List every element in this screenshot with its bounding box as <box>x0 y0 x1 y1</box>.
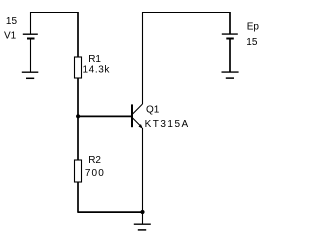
wire V1 bottom lead <box>30 39 32 73</box>
battery V1 positive plate <box>23 33 38 35</box>
wire Ep top lead <box>229 12 231 34</box>
ground center long bar <box>134 223 151 225</box>
svg-text:700: 700 <box>85 168 105 179</box>
svg-text:15: 15 <box>246 37 258 48</box>
transistor Q1 collector diagonal <box>133 104 143 114</box>
resistor R2 body <box>75 160 82 182</box>
svg-text:R2: R2 <box>88 155 101 166</box>
wire R1 top lead <box>77 12 79 57</box>
ground center short bar <box>138 229 146 231</box>
wire bottom from R2 to emitter node <box>78 211 143 213</box>
battery V1 negative plate <box>27 38 35 40</box>
wire base from node to Q1 <box>78 115 131 117</box>
wire base node to R2 <box>77 116 79 160</box>
battery Ep negative plate <box>226 38 234 40</box>
wire Q1 emitter down to ground node <box>142 128 144 212</box>
wire top-right from collector to Ep <box>143 12 231 14</box>
svg-text:KT315A: KT315A <box>145 119 190 130</box>
wire ground lead <box>142 212 144 224</box>
wire R2 bottom lead <box>77 182 79 213</box>
resistor R1 body <box>75 57 82 78</box>
svg-text:15: 15 <box>6 16 18 27</box>
transistor Q1 emitter arrowhead <box>139 124 143 129</box>
node emitter-ground junction dot <box>140 210 144 214</box>
transistor Q1 emitter diagonal <box>133 118 142 128</box>
ground under Ep short bar <box>226 77 234 79</box>
ground under Ep long bar <box>222 71 239 73</box>
wire Ep bottom lead <box>229 39 231 73</box>
svg-text:Ep: Ep <box>247 22 260 33</box>
wire R1 bottom to base node <box>77 78 79 117</box>
svg-text:Q1: Q1 <box>146 104 160 115</box>
transistor Q1 base bar <box>131 104 133 127</box>
node base junction dot <box>76 114 80 118</box>
ground under V1 long bar <box>22 71 39 73</box>
wire top-left from V1 to R1 column <box>31 12 79 14</box>
svg-text:R1: R1 <box>88 54 101 65</box>
wire Q1 collector up <box>142 12 144 104</box>
wire V1 top lead <box>30 12 32 34</box>
svg-text:V1: V1 <box>4 31 17 42</box>
battery Ep positive plate <box>222 33 238 35</box>
ground under V1 short bar <box>26 77 34 79</box>
svg-text:14.3k: 14.3k <box>83 65 111 76</box>
